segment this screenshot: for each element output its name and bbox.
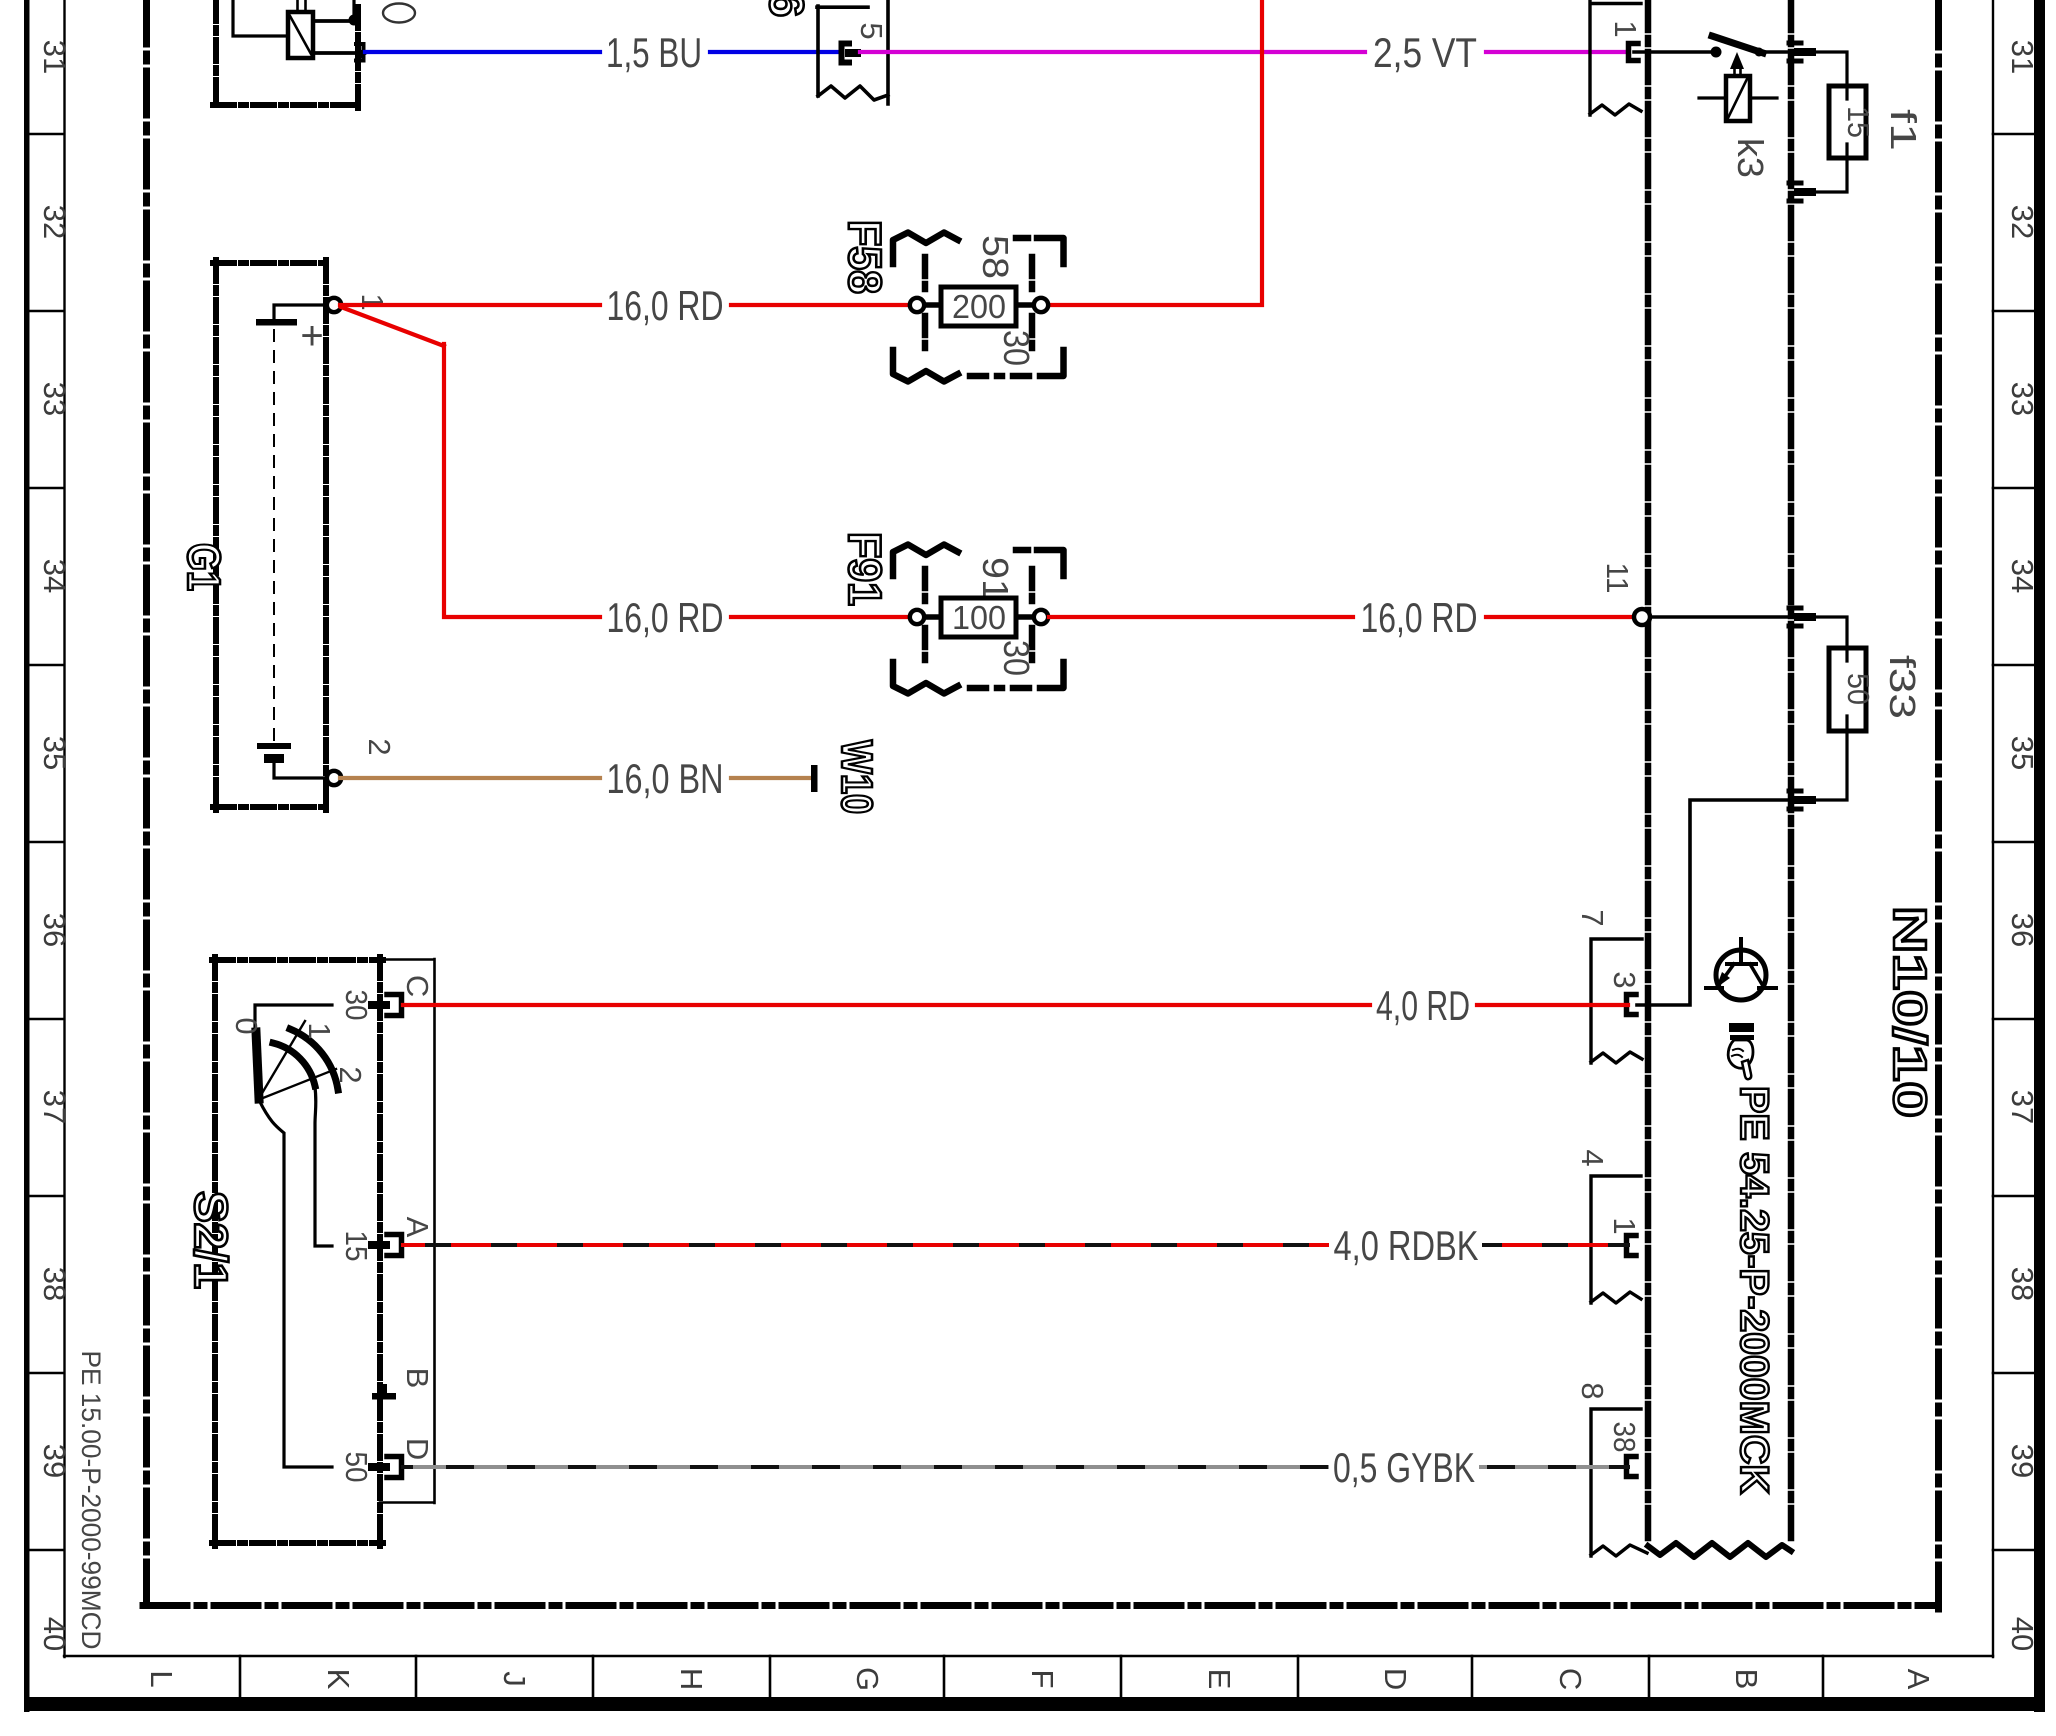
border right row numbers 31-40 bbox=[2005, 40, 2040, 1651]
wire 16,0 RD branch diagonal bbox=[341, 307, 600, 617]
svg-text:2: 2 bbox=[333, 1066, 368, 1083]
svg-text:PE 54.25-P-2000MCK: PE 54.25-P-2000MCK bbox=[1732, 1086, 1776, 1494]
terminal ring F58 right bbox=[1034, 298, 1048, 312]
wire 16,0 RD row3 segment B bbox=[731, 615, 912, 619]
svg-text:8: 8 bbox=[1575, 1382, 1610, 1399]
relay contact k3 blade bbox=[1712, 36, 1763, 53]
svg-text:1: 1 bbox=[302, 1022, 337, 1039]
wire 1,5 BU blue segment A bbox=[365, 50, 600, 54]
relay component box (top left, cut off) bbox=[213, 0, 361, 108]
wire 16,0 RD row3 segment C bbox=[1049, 615, 1353, 619]
svg-text:37: 37 bbox=[37, 1090, 72, 1124]
wire 16,0 RD vertical feed (cut at top) bbox=[1049, 0, 1262, 305]
svg-text:0,5 GYBK: 0,5 GYBK bbox=[1333, 1444, 1475, 1491]
svg-text:30: 30 bbox=[996, 640, 1037, 676]
svg-text:16,0 BN: 16,0 BN bbox=[607, 755, 724, 802]
border left thick line bbox=[24, 0, 30, 1712]
wire 4,0 RDBK left bbox=[403, 1243, 1327, 1247]
wire switch to 15 bbox=[315, 1087, 332, 1246]
relay k3 actuator arrow bbox=[1730, 52, 1744, 69]
svg-text:B: B bbox=[1729, 1669, 1764, 1690]
relay k3 coil bbox=[1726, 76, 1750, 121]
terminal ring F91 right bbox=[1034, 610, 1048, 624]
wire f33 return bbox=[1814, 731, 1847, 800]
pin 5 socket bbox=[842, 44, 850, 63]
wire 4,0 RD left bbox=[403, 1003, 1370, 1007]
svg-text:D: D bbox=[1378, 1668, 1413, 1690]
svg-text:91: 91 bbox=[975, 557, 1016, 601]
svg-text:58: 58 bbox=[975, 235, 1016, 279]
svg-text:PE 15.00-P-2000-99MCD: PE 15.00-P-2000-99MCD bbox=[76, 1351, 106, 1650]
svg-text:39: 39 bbox=[2005, 1444, 2040, 1478]
border right inner line bbox=[1992, 0, 1994, 1657]
pin socket 3 bbox=[1627, 995, 1637, 1015]
wire switch feed 30 bbox=[255, 1005, 332, 1032]
svg-text:f33: f33 bbox=[1882, 655, 1923, 719]
label 30 (cut oval glyph) bbox=[383, 4, 415, 23]
svg-text:K: K bbox=[321, 1669, 356, 1690]
terminal ring G1 pin 2 bbox=[327, 771, 341, 785]
note hand icon bbox=[1728, 1023, 1754, 1079]
ground terminal W10 bbox=[811, 765, 818, 792]
wire 16,0 RD row2 segment A bbox=[340, 303, 600, 307]
switch S2/1 position arcs bbox=[273, 1043, 315, 1086]
svg-text:1: 1 bbox=[355, 293, 390, 310]
wire f33 feed bbox=[1814, 617, 1847, 648]
battery G1 negative short plate bbox=[264, 754, 284, 763]
wire f1 feed bbox=[1814, 52, 1847, 86]
svg-text:4,0 RD: 4,0 RD bbox=[1376, 982, 1470, 1029]
svg-text:2: 2 bbox=[362, 738, 397, 755]
wire battery plus to terminal 1 bbox=[274, 305, 327, 321]
fuse F58 box outline bottom bbox=[893, 350, 1064, 382]
svg-text:4,0 RDBK: 4,0 RDBK bbox=[1334, 1222, 1479, 1269]
svg-text:W10: W10 bbox=[832, 740, 881, 814]
svg-text:34: 34 bbox=[2005, 559, 2040, 593]
terminal ring F58 left bbox=[910, 298, 924, 312]
svg-text:S2/1: S2/1 bbox=[185, 1191, 237, 1289]
svg-text:32: 32 bbox=[37, 205, 72, 239]
junction dot k3 input bbox=[1711, 47, 1722, 58]
battery G1 positive plate bbox=[256, 319, 297, 326]
svg-text:37: 37 bbox=[2005, 1090, 2040, 1124]
border left row numbers 31-40 bbox=[37, 40, 72, 1651]
control unit N10/10 left boundary bbox=[1645, 0, 1652, 1545]
control unit N10/10 right boundary bbox=[1788, 0, 1795, 1545]
svg-text:3: 3 bbox=[1607, 971, 1642, 988]
svg-text:30: 30 bbox=[996, 330, 1037, 366]
svg-text:33: 33 bbox=[37, 382, 72, 416]
wire k3 to f1 bbox=[1763, 50, 1790, 54]
svg-text:2,5 VT: 2,5 VT bbox=[1373, 29, 1477, 76]
svg-text:B: B bbox=[400, 1368, 435, 1389]
wire 0,5 GYBK right end bbox=[1481, 1465, 1628, 1469]
svg-text:6: 6 bbox=[759, 0, 812, 17]
svg-text:36: 36 bbox=[37, 913, 72, 947]
svg-text:7: 7 bbox=[1575, 909, 1610, 926]
wire switch to 50 bbox=[260, 1102, 332, 1467]
svg-text:E: E bbox=[1202, 1669, 1237, 1690]
wire 16,0 BN brown segment A bbox=[340, 776, 600, 780]
junction dot relay output bbox=[349, 15, 360, 26]
fuse F91 box dash-dot sides bbox=[925, 569, 1032, 668]
fuse F58 element 200 bbox=[941, 287, 1016, 326]
svg-text:200: 200 bbox=[952, 288, 1006, 325]
terminal ring G1 pin 1 bbox=[327, 298, 341, 312]
fuse F58 box outline top bbox=[893, 233, 1064, 265]
border bottom column letters L-A bbox=[144, 1667, 1936, 1691]
connector shell pin 1 (RDBK) bbox=[1591, 1176, 1641, 1303]
svg-text:16,0 RD: 16,0 RD bbox=[607, 282, 724, 329]
fuse f1 bbox=[1829, 86, 1866, 158]
svg-text:1,5 BU: 1,5 BU bbox=[606, 29, 702, 76]
svg-text:36: 36 bbox=[2005, 913, 2040, 947]
svg-text:L: L bbox=[144, 1670, 179, 1687]
wire stub out of fuse F58 right bbox=[1013, 302, 1036, 308]
svg-text:34: 34 bbox=[37, 559, 72, 593]
switch S2/1 contact bar bbox=[256, 1032, 259, 1099]
battery G1 negative long plate bbox=[257, 743, 291, 749]
wire 4,0 RDBK right end bbox=[1484, 1243, 1628, 1247]
battery G1 cell dashed line bbox=[273, 330, 275, 742]
battery G1 box bbox=[213, 260, 329, 810]
ignition switch S2/1 box bbox=[212, 957, 383, 1546]
svg-text:H: H bbox=[674, 1668, 709, 1690]
pin socket 38 bbox=[1627, 1457, 1637, 1477]
svg-text:C: C bbox=[1553, 1668, 1588, 1690]
svg-text:1: 1 bbox=[1607, 1217, 1642, 1234]
pin socket relay output bbox=[356, 44, 364, 61]
svg-text:C: C bbox=[400, 975, 435, 997]
terminal ring 11 bbox=[1634, 609, 1650, 625]
svg-text:35: 35 bbox=[37, 736, 72, 770]
svg-text:5: 5 bbox=[854, 22, 889, 39]
fuse F91 element 100 bbox=[941, 598, 1016, 637]
svg-text:16,0 RD: 16,0 RD bbox=[1361, 594, 1478, 641]
svg-text:F: F bbox=[1025, 1670, 1060, 1689]
wire 2,5 VT magenta segment B bbox=[1486, 50, 1628, 54]
relay coil K bbox=[288, 0, 313, 58]
svg-text:+: + bbox=[300, 314, 323, 358]
switch S2/1 position rays bbox=[258, 1021, 336, 1100]
connector shell S2/1 bbox=[380, 959, 435, 1503]
wire 16,0 RD row2 segment B bbox=[731, 303, 912, 307]
svg-text:G: G bbox=[850, 1667, 885, 1691]
svg-text:4: 4 bbox=[1575, 1149, 1610, 1166]
wire stub out of fuse F91 right bbox=[1013, 614, 1036, 620]
svg-text:35: 35 bbox=[2005, 736, 2040, 770]
pin 5 stub bbox=[845, 49, 861, 57]
pin socket 1 (RDBK) bbox=[1627, 1236, 1637, 1256]
border bottom strip line bbox=[64, 1655, 1993, 1657]
wire 4,0 RD right end bbox=[1477, 1003, 1628, 1007]
pin socket A bbox=[368, 1241, 390, 1249]
wire relay coil left loop bbox=[233, 0, 288, 36]
svg-text:38: 38 bbox=[1607, 1422, 1642, 1453]
wire stub into fuse F58 left bbox=[922, 302, 944, 308]
svg-text:A: A bbox=[1901, 1669, 1936, 1690]
pin socket f33 top bbox=[1789, 608, 1801, 626]
svg-text:11: 11 bbox=[1600, 563, 1635, 594]
wire 0,5 GYBK left bbox=[403, 1465, 1327, 1469]
pin socket f33 bottom bbox=[1789, 791, 1801, 809]
svg-text:F58: F58 bbox=[839, 220, 891, 294]
transistor symbol (internal) bbox=[1706, 939, 1776, 1000]
svg-text:40: 40 bbox=[37, 1617, 72, 1651]
wire 1,5 BU blue segment B bbox=[710, 50, 840, 54]
connector X shell (interrupted) bbox=[817, 0, 888, 104]
border right cell ticks bbox=[1993, 134, 2034, 1550]
svg-text:J: J bbox=[497, 1671, 532, 1687]
wire f33 to pin 3 internal bbox=[1637, 800, 1791, 1005]
svg-text:38: 38 bbox=[37, 1267, 72, 1301]
wire pin1 to k3 bbox=[1634, 50, 1713, 54]
svg-text:15: 15 bbox=[1841, 106, 1876, 138]
pin socket D bbox=[368, 1463, 390, 1471]
svg-text:40: 40 bbox=[2005, 1617, 2040, 1651]
svg-text:F91: F91 bbox=[839, 532, 891, 606]
svg-text:38: 38 bbox=[2005, 1267, 2040, 1301]
wire f1 return bbox=[1814, 158, 1847, 192]
connector shell pin 38 bbox=[1591, 1409, 1647, 1556]
border bottom thick line bbox=[24, 1697, 2045, 1711]
svg-text:N10/10: N10/10 bbox=[1884, 906, 1936, 1118]
svg-text:1: 1 bbox=[1608, 20, 1643, 37]
svg-text:D: D bbox=[400, 1438, 435, 1460]
svg-text:100: 100 bbox=[952, 599, 1006, 636]
svg-text:f1: f1 bbox=[1883, 109, 1924, 151]
wire relay coil to pin bbox=[313, 51, 354, 55]
pin socket C bbox=[368, 1001, 390, 1009]
fuse f33 bbox=[1829, 648, 1866, 731]
wire stub into fuse F91 left bbox=[922, 614, 944, 620]
svg-text:G1: G1 bbox=[178, 543, 230, 591]
control unit N10/10 bottom break zigzag bbox=[1648, 1543, 1791, 1557]
svg-text:31: 31 bbox=[37, 40, 72, 74]
pin socket 1 (VT) bbox=[1629, 44, 1639, 61]
wire relay coil to junction bbox=[313, 19, 351, 23]
svg-text:50: 50 bbox=[1841, 673, 1876, 705]
wire 16,0 RD row3 segment D bbox=[1486, 615, 1636, 619]
border right thick line bbox=[2034, 0, 2045, 1712]
svg-text:32: 32 bbox=[2005, 205, 2040, 239]
fuse F91 box outline top bbox=[893, 545, 1064, 577]
wire 16,0 BN brown segment B bbox=[731, 776, 812, 780]
svg-text:39: 39 bbox=[37, 1444, 72, 1478]
pin socket f1 bottom bbox=[1789, 183, 1801, 201]
svg-text:0: 0 bbox=[229, 1017, 264, 1034]
border left inner line bbox=[63, 0, 65, 1657]
fuse F91 box outline bottom bbox=[893, 662, 1064, 694]
wire junction up (cut) bbox=[352, 0, 355, 20]
svg-text:33: 33 bbox=[2005, 382, 2040, 416]
relay contact k3 end dot bbox=[1755, 48, 1764, 57]
wire 2,5 VT magenta segment A bbox=[860, 50, 1365, 54]
connector shell pin 3 bbox=[1591, 939, 1642, 1063]
wire terminal 11 to f33 bbox=[1650, 615, 1790, 619]
pin socket f1 top bbox=[1789, 43, 1801, 61]
svg-text:A: A bbox=[400, 1217, 435, 1238]
pin stub B bbox=[372, 1393, 396, 1400]
wire battery minus to terminal 2 bbox=[274, 763, 327, 778]
svg-text:16,0 RD: 16,0 RD bbox=[607, 594, 724, 641]
fuse F58 box dash-dot sides bbox=[925, 257, 1032, 356]
border left cell ticks bbox=[29, 134, 64, 1550]
border bottom cell ticks bbox=[240, 1656, 1823, 1697]
terminal ring F91 left bbox=[910, 610, 924, 624]
svg-text:31: 31 bbox=[2005, 40, 2040, 74]
connector shell pin 1 (top, cut) bbox=[1590, 0, 1641, 115]
svg-text:k3: k3 bbox=[1730, 138, 1771, 178]
